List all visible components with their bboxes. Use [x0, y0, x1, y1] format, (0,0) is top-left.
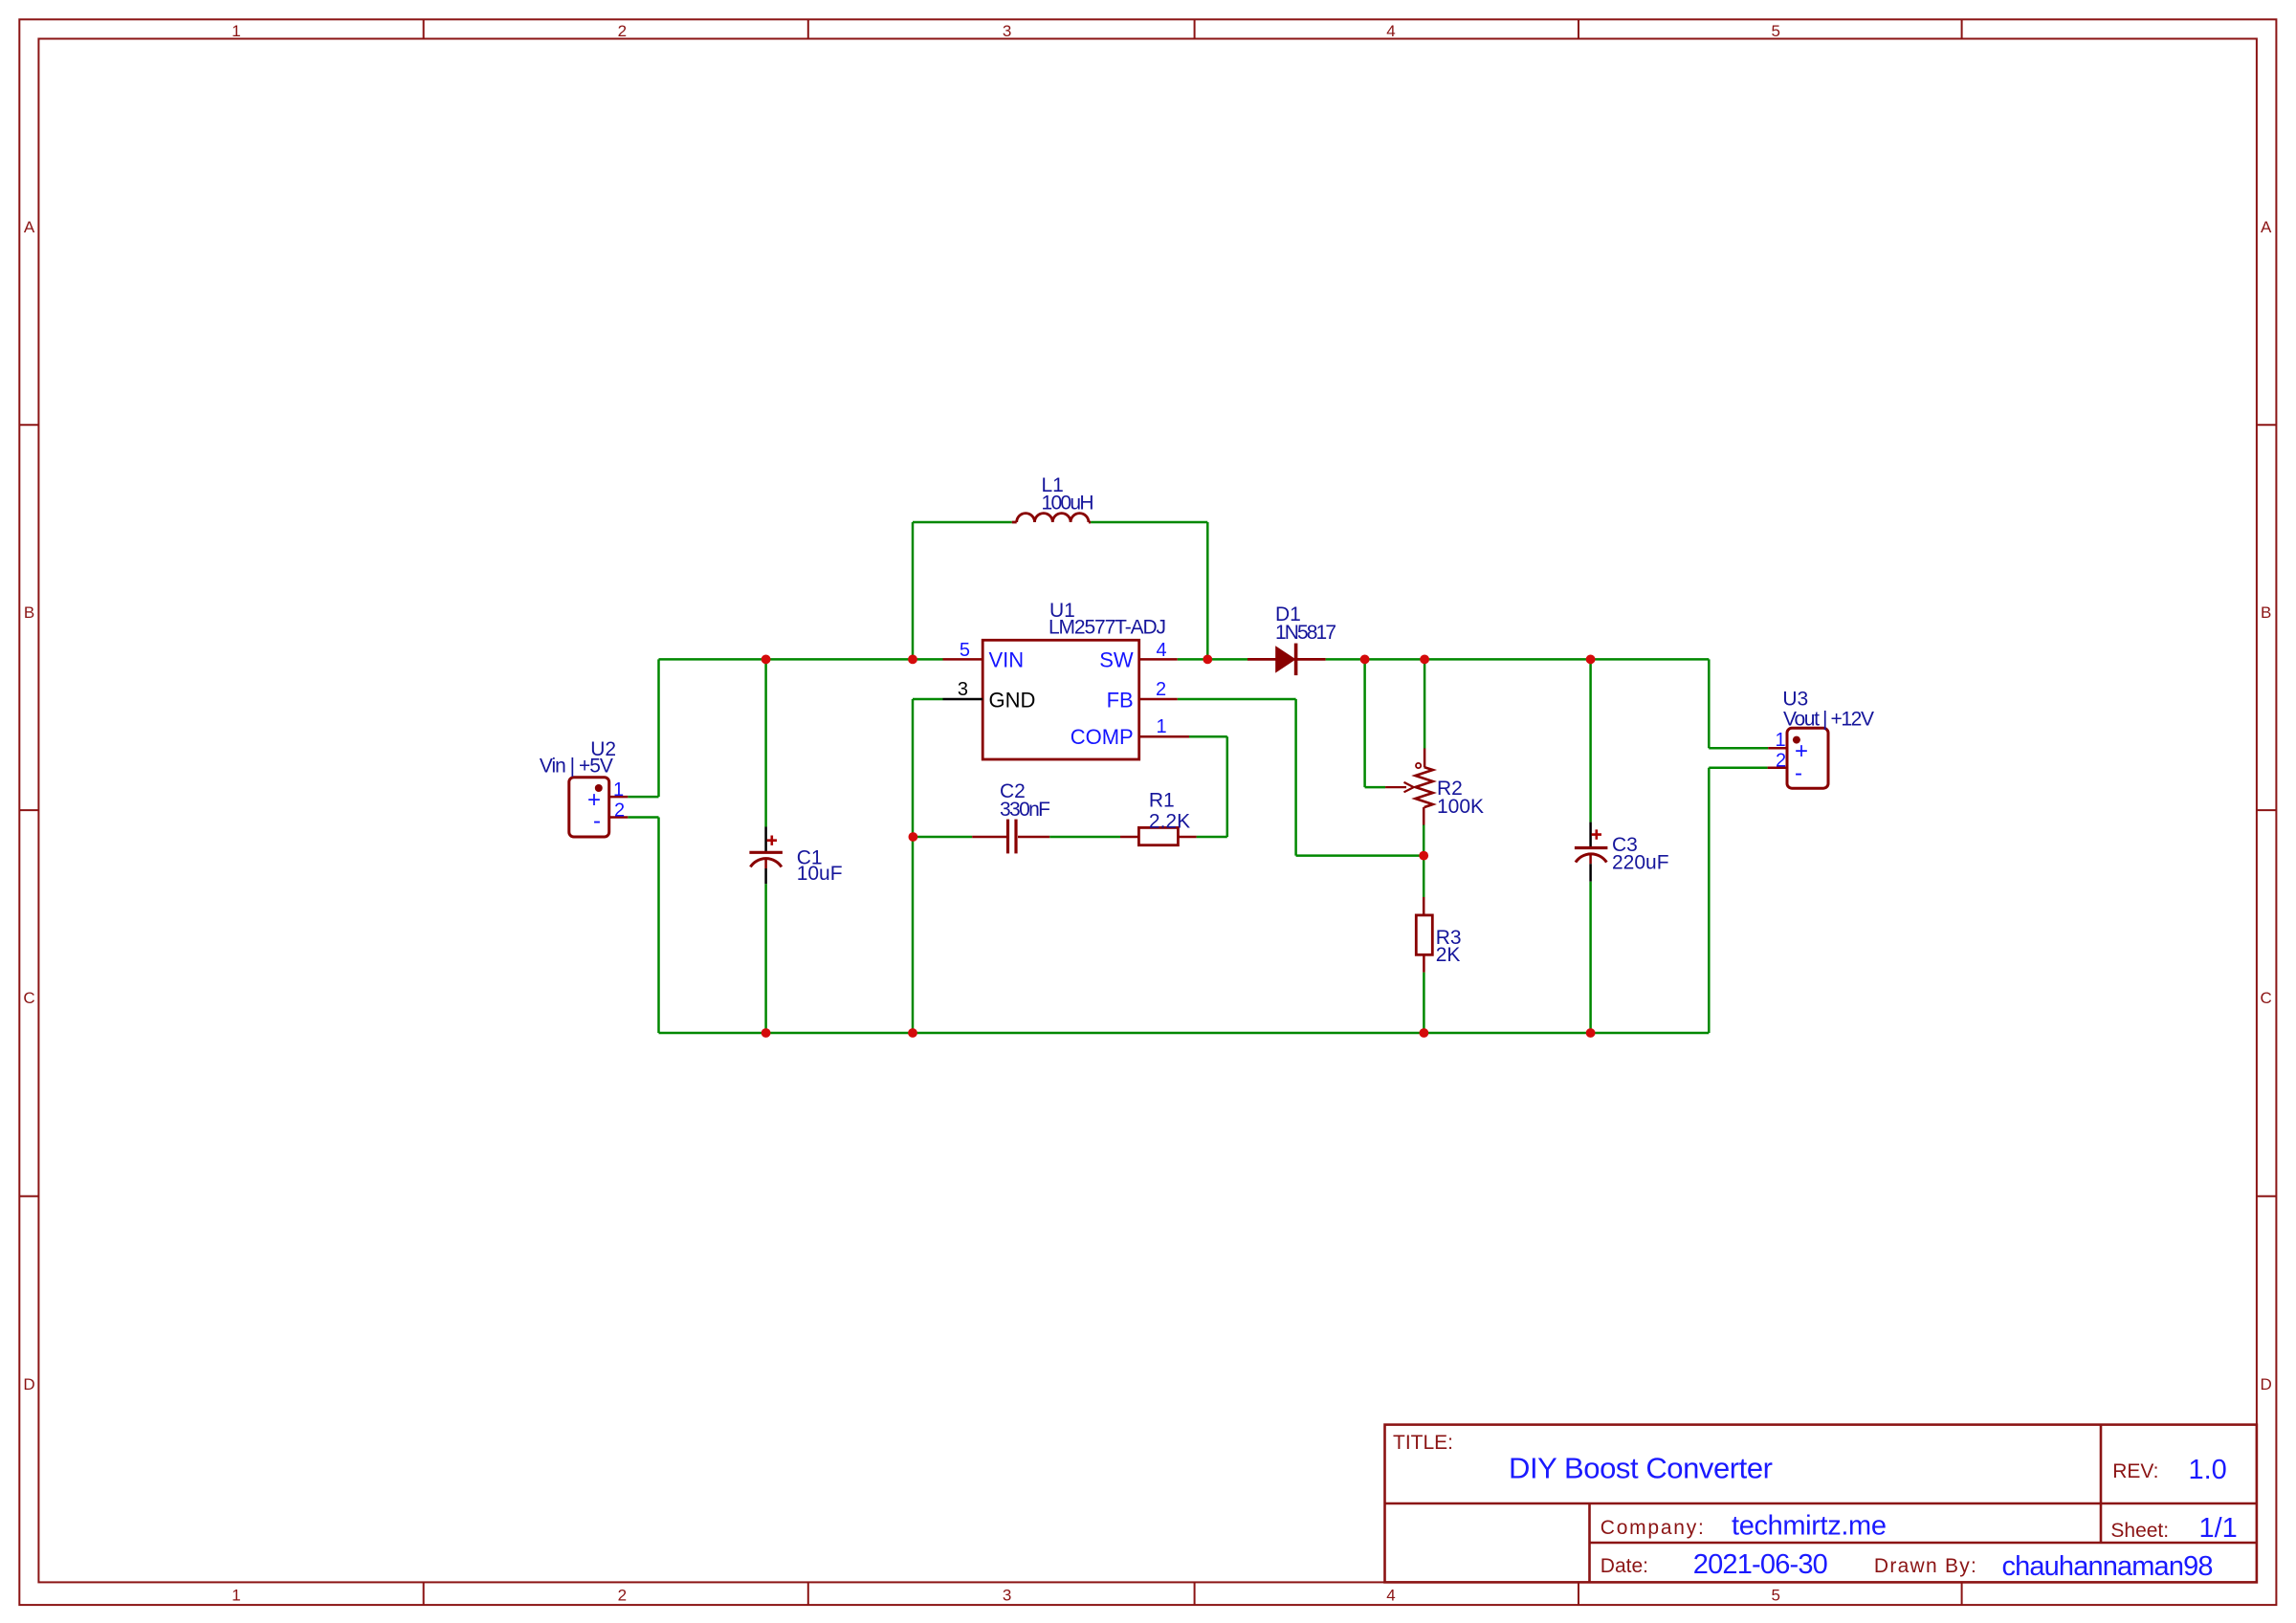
- svg-text:1: 1: [232, 22, 240, 40]
- wire L1 right leg to SW net: [1206, 522, 1209, 659]
- svg-text:C: C: [2261, 989, 2272, 1007]
- U1 pin 1 COMP: [1139, 735, 1189, 738]
- svg-text:1N5817: 1N5817: [1275, 622, 1336, 644]
- U1 pin 3 GND: [943, 698, 983, 701]
- wire R1 right to COMP corner: [1197, 836, 1227, 839]
- svg-text:3: 3: [958, 679, 968, 700]
- U3 pin 2: [1768, 766, 1787, 769]
- svg-text:B: B: [24, 603, 34, 622]
- svg-text:1: 1: [1157, 716, 1167, 737]
- svg-text:4: 4: [1386, 22, 1395, 40]
- resistor R1 2.2K: [1120, 790, 1197, 845]
- svg-text:C: C: [23, 989, 34, 1007]
- junction GND/C2: [909, 832, 918, 842]
- wire GND pin to riser: [913, 698, 943, 701]
- svg-text:10uF: 10uF: [797, 863, 843, 885]
- svg-text:1: 1: [1776, 730, 1786, 751]
- svg-text:GND: GND: [989, 689, 1036, 713]
- svg-text:Vout | +12V: Vout | +12V: [1783, 709, 1874, 731]
- junction L1/SW: [1203, 655, 1212, 665]
- wire Vout right riser: [1708, 659, 1711, 748]
- svg-text:Drawn By:: Drawn By:: [1874, 1555, 1976, 1577]
- wire FB to R2/R3 node: [1296, 854, 1424, 857]
- wire L1 top left: [913, 521, 1012, 524]
- svg-text:220uF: 220uF: [1612, 852, 1669, 874]
- wire L1 left leg: [912, 522, 915, 659]
- svg-text:1: 1: [613, 779, 624, 801]
- wire R3 bottom: [1423, 973, 1425, 1033]
- svg-text:2021-06-30: 2021-06-30: [1693, 1549, 1828, 1580]
- wire GND right riser: [1708, 768, 1711, 1033]
- svg-text:D: D: [2261, 1375, 2272, 1393]
- svg-text:2K: 2K: [1436, 944, 1461, 966]
- wire Vout to R2 top: [1424, 659, 1426, 748]
- TITLE BLOCK (sheet template): [1385, 1425, 2257, 1583]
- U2 pin 1: [609, 796, 628, 799]
- svg-text:LM2577T-ADJ: LM2577T-ADJ: [1049, 617, 1166, 639]
- R2 wiper arrow: [1385, 786, 1406, 788]
- junction C3 bottom: [1586, 1028, 1596, 1038]
- wire U2 pin1 to riser: [628, 796, 658, 799]
- wire L1 top right: [1091, 521, 1207, 524]
- svg-text:Date:: Date:: [1601, 1555, 1648, 1577]
- svg-text:TITLE:: TITLE:: [1393, 1432, 1453, 1454]
- U1 pin 4 SW: [1139, 658, 1178, 661]
- diode D1 1N5817: [1247, 603, 1336, 675]
- svg-text:100K: 100K: [1437, 796, 1484, 818]
- svg-text:A: A: [24, 218, 35, 236]
- junction C1 bottom: [762, 1028, 771, 1038]
- svg-text:3: 3: [1003, 22, 1011, 40]
- svg-text:1: 1: [232, 1587, 240, 1605]
- wire COMP horizontal: [1189, 735, 1227, 738]
- wire COMP drop to R1 row: [1226, 736, 1229, 837]
- capacitor C1 10uF: [749, 827, 842, 886]
- svg-text:-: -: [1795, 760, 1802, 786]
- svg-text:Vin | +5V: Vin | +5V: [540, 756, 613, 778]
- U1 pin 5 VIN: [943, 658, 983, 661]
- IC U1 LM2577T-ADJ: [943, 600, 1190, 759]
- svg-text:D: D: [23, 1375, 34, 1393]
- svg-text:VIN: VIN: [989, 648, 1025, 672]
- wire GND bottom rail: [659, 1032, 1710, 1035]
- wire FB horizontal from U1: [1178, 698, 1296, 701]
- svg-text:100uH: 100uH: [1042, 493, 1094, 515]
- svg-text:FB: FB: [1107, 689, 1134, 713]
- connector U3 Vout|+12V: [1768, 689, 1874, 789]
- wire FB vertical drop: [1294, 699, 1297, 856]
- wire GND riser to C2: [913, 836, 972, 839]
- svg-text:2: 2: [1156, 679, 1166, 700]
- svg-text:techmirtz.me: techmirtz.me: [1732, 1511, 1887, 1542]
- wire Vout to C3 top: [1589, 659, 1592, 822]
- svg-text:2: 2: [1776, 751, 1786, 772]
- wire C1 bottom: [764, 884, 767, 1033]
- wire U2 pin2 to riser: [628, 816, 658, 819]
- svg-text:5: 5: [960, 640, 970, 661]
- wire node to R3 top: [1423, 856, 1425, 897]
- potentiometer R2 100K: [1385, 749, 1484, 825]
- svg-text:5: 5: [1771, 22, 1779, 40]
- svg-text:330nF: 330nF: [1000, 799, 1050, 821]
- svg-text:Sheet:: Sheet:: [2110, 1520, 2169, 1542]
- wire R2 bottom to node: [1423, 825, 1425, 856]
- wire GND riser: [912, 699, 915, 1033]
- svg-text:3: 3: [1003, 1587, 1011, 1605]
- junction C3 top: [1586, 655, 1596, 665]
- junction C1 top: [762, 655, 771, 665]
- U3 pin 1: [1768, 747, 1787, 750]
- svg-text:2: 2: [618, 1587, 627, 1605]
- U1 pin 2 FB: [1139, 698, 1178, 701]
- inductor L1 100uH: [1012, 474, 1094, 522]
- wire C3 bottom to GND rail: [1589, 882, 1592, 1033]
- svg-text:chauhannaman98: chauhannaman98: [2002, 1551, 2214, 1582]
- svg-text:Company:: Company:: [1601, 1517, 1704, 1539]
- svg-text:2.2K: 2.2K: [1149, 811, 1190, 833]
- wire SW to D1 anode: [1178, 658, 1247, 661]
- wire Vin+ left riser: [657, 659, 660, 797]
- svg-text:B: B: [2261, 603, 2271, 622]
- wire Vout rail (D1 cathode to corner): [1326, 658, 1710, 661]
- junction R3 bottom: [1420, 1028, 1429, 1038]
- svg-text:REV:: REV:: [2112, 1460, 2158, 1482]
- junction FB/R2/R3: [1419, 851, 1428, 861]
- wire Vin+ top rail (U2.1 to U1 VIN): [659, 658, 943, 661]
- svg-text:1/1: 1/1: [2199, 1513, 2238, 1544]
- svg-text:2: 2: [618, 22, 627, 40]
- capacitor C2 330nF: [972, 780, 1050, 853]
- wire to U3 pin1: [1709, 747, 1768, 750]
- wire C1 top: [764, 659, 767, 826]
- wire R2 wiper drop: [1363, 659, 1366, 787]
- svg-text:-: -: [593, 808, 601, 834]
- wire R2 wiper horizontal: [1365, 786, 1386, 789]
- svg-text:4: 4: [1386, 1587, 1395, 1605]
- junction VIN/L1: [908, 655, 917, 665]
- svg-text:5: 5: [1771, 1587, 1779, 1605]
- svg-text:U3: U3: [1782, 689, 1808, 711]
- junction GND riser bottom: [908, 1028, 917, 1038]
- U2 pin 2: [609, 816, 628, 819]
- resistor R3 2K: [1416, 897, 1461, 973]
- svg-text:SW: SW: [1099, 648, 1134, 672]
- capacitor C3 220uF: [1575, 822, 1669, 882]
- svg-text:R1: R1: [1149, 790, 1175, 812]
- junction R2 top tap: [1420, 655, 1429, 665]
- svg-text:1.0: 1.0: [2189, 1455, 2227, 1485]
- junction R2 wiper tap: [1360, 655, 1370, 665]
- wire to U3 pin2: [1709, 766, 1767, 769]
- svg-text:COMP: COMP: [1071, 725, 1134, 749]
- wire C2 to R1: [1049, 836, 1120, 839]
- svg-text:4: 4: [1157, 640, 1167, 661]
- connector U2 Vin|+5V: [540, 738, 628, 837]
- svg-text:DIY Boost Converter: DIY Boost Converter: [1509, 1452, 1773, 1485]
- svg-text:2: 2: [614, 801, 625, 822]
- wire GND left riser: [657, 818, 660, 1034]
- svg-text:A: A: [2261, 218, 2272, 236]
